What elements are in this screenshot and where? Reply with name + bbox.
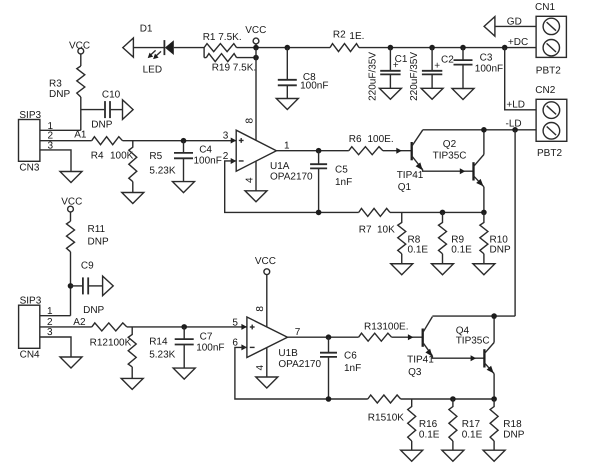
svg-text:0.1E: 0.1E <box>408 245 429 256</box>
arrow Q1 base <box>396 148 402 154</box>
svg-text:R13100E.: R13100E. <box>364 321 408 332</box>
resistor R19 7.5K <box>204 54 256 74</box>
svg-text:100nF: 100nF <box>196 343 224 354</box>
ground C2 <box>421 88 443 99</box>
svg-text:8: 8 <box>255 306 266 312</box>
svg-text:R1 7.5K.: R1 7.5K. <box>203 32 242 43</box>
ground C3 <box>452 89 474 100</box>
svg-text:0.1E: 0.1E <box>462 430 483 441</box>
svg-text:C2: C2 <box>441 55 454 66</box>
transistor Q4 TIP35C <box>456 316 494 399</box>
node junction C6 top <box>326 334 332 340</box>
wire U1A pin4 <box>255 161 257 191</box>
svg-text:R18: R18 <box>503 419 522 430</box>
svg-text:R5: R5 <box>149 151 162 162</box>
svg-text:+: + <box>434 60 440 71</box>
svg-text:4: 4 <box>255 365 266 371</box>
resistor R5 5.23K <box>129 141 176 182</box>
port arrow LED input <box>123 38 134 57</box>
node junction R9 <box>440 210 446 216</box>
resistor R10 DNP <box>480 212 511 263</box>
connector CN3 SIP3 <box>19 110 54 174</box>
VCC supply U1B <box>255 256 276 327</box>
arrow Q3 base <box>408 334 414 340</box>
wire U1B feedback <box>235 347 368 399</box>
svg-text:R17: R17 <box>462 419 481 430</box>
wire -LD drop to lower collector rail <box>514 130 516 316</box>
resistor R14 5.23K <box>128 327 175 367</box>
svg-text:D1: D1 <box>140 24 153 35</box>
ground R18 <box>483 450 505 461</box>
svg-text:R1510K: R1510K <box>368 413 404 424</box>
svg-text:TIP35C: TIP35C <box>433 151 467 162</box>
svg-text:C4: C4 <box>199 145 212 156</box>
svg-text:6: 6 <box>232 337 238 348</box>
svg-text:CN4: CN4 <box>20 350 40 361</box>
svg-text:DNP: DNP <box>91 120 112 131</box>
svg-text:1nF: 1nF <box>335 177 352 188</box>
svg-text:+: + <box>393 60 399 71</box>
svg-text:1: 1 <box>284 141 290 152</box>
svg-text:LED: LED <box>143 65 162 76</box>
svg-text:Q2: Q2 <box>443 139 457 150</box>
svg-text:R14: R14 <box>149 337 168 348</box>
op-amp U1A OPA2170 <box>223 130 313 182</box>
wire CN4 pin2 A2 <box>40 326 92 328</box>
node junction C1 <box>388 45 394 51</box>
resistor R1 7.5K <box>203 32 242 52</box>
ground R8 <box>391 264 413 275</box>
node junction +DC drop <box>502 45 508 51</box>
node junction -LD drop <box>512 127 518 133</box>
svg-text:1E.: 1E. <box>349 31 364 42</box>
wire <box>174 47 204 49</box>
resistor R18 DNP <box>490 399 525 450</box>
node junction Q4 collector <box>491 313 497 319</box>
svg-text:C9: C9 <box>81 261 94 272</box>
svg-text:R3: R3 <box>49 79 62 90</box>
wire R11 to pin1 <box>70 252 72 316</box>
svg-text:U1A: U1A <box>270 161 290 172</box>
capacitor C10 DNP <box>91 90 122 131</box>
wire U1B pin4 <box>266 348 268 377</box>
arrow Q4 base <box>471 355 477 361</box>
resistor R15 10K <box>368 395 404 424</box>
node junction C2 <box>429 45 435 51</box>
wire <box>359 47 536 49</box>
svg-text:4: 4 <box>245 177 256 183</box>
wire CN4 pin1 <box>40 315 71 317</box>
node junction R17 <box>450 396 456 402</box>
port arrow C10 <box>123 100 134 120</box>
arrow U1B pin6 <box>241 344 247 350</box>
wire U1B output <box>288 336 359 338</box>
svg-text:1nF: 1nF <box>344 363 361 374</box>
svg-text:220uF/35V: 220uF/35V <box>368 52 379 101</box>
svg-text:C6: C6 <box>344 351 357 362</box>
svg-text:10K: 10K <box>377 225 395 236</box>
ground CN3 <box>60 172 82 183</box>
resistor R9 0.1E <box>439 212 473 263</box>
capacitor C1 220uF/35V <box>368 48 408 101</box>
node junction R19 <box>253 55 259 61</box>
svg-text:100nF: 100nF <box>475 64 503 75</box>
arrow U1A pin2 <box>231 158 237 164</box>
wire R6 to Q1 base <box>383 150 412 152</box>
ground R5 <box>122 193 144 204</box>
wire +DC to +LD drop <box>505 48 536 110</box>
svg-text:A1: A1 <box>74 129 87 140</box>
resistor R8 0.1E <box>398 212 429 263</box>
svg-text:OPA2170: OPA2170 <box>278 359 321 370</box>
wire -LD collector rail <box>423 129 536 131</box>
wire Q1 collector <box>422 129 424 132</box>
wire CN3 pin3 to ground <box>40 150 71 172</box>
ground R17 <box>442 450 464 461</box>
node junction C8 <box>285 45 291 51</box>
ground C1 <box>379 88 401 99</box>
svg-text:OPA2170: OPA2170 <box>270 172 313 183</box>
ground U1A pin4 <box>245 191 267 202</box>
transistor Q2 TIP35C <box>433 130 484 213</box>
resistor R2 1E <box>330 29 364 51</box>
ground C7 <box>173 368 195 379</box>
capacitor C7 100nF <box>175 327 225 368</box>
wire lower emitter rail <box>401 398 494 400</box>
wire C10 branch <box>81 109 105 111</box>
ground CN4 <box>60 357 82 368</box>
LED D1 <box>140 24 174 76</box>
wire C9 branch <box>71 285 83 287</box>
node junction R18 <box>491 396 497 402</box>
svg-text:CN3: CN3 <box>19 163 39 174</box>
node junction Q2 collector <box>481 127 487 133</box>
wire CN4 pin3 to ground <box>40 337 71 357</box>
capacitor C9 DNP <box>81 261 105 317</box>
wire Q3 Q4 collector rail <box>432 315 515 317</box>
capacitor C2 220uF/35V <box>409 48 454 101</box>
svg-text:C3: C3 <box>480 53 493 64</box>
ground C4 <box>173 182 195 193</box>
resistor R7 10K <box>359 208 395 235</box>
svg-text:0.1E: 0.1E <box>451 245 472 256</box>
resistor R17 0.1E <box>449 399 483 450</box>
svg-text:+LD: +LD <box>506 99 525 110</box>
wire <box>237 47 330 49</box>
capacitor C6 1nF <box>320 337 361 399</box>
wire U1A feedback <box>225 161 359 212</box>
wire CN3 pin2 A1 <box>40 140 92 142</box>
node junction VCC rail <box>253 45 259 51</box>
node junction R10 <box>481 210 487 216</box>
ground C8 <box>276 99 298 110</box>
resistor R4 100K <box>91 137 134 162</box>
transistor Q1 TIP41 <box>397 130 474 193</box>
wire GD <box>495 25 536 27</box>
transistor Q3 TIP41 <box>407 317 484 378</box>
wire A2 rail <box>127 326 247 328</box>
svg-text:A2: A2 <box>73 317 86 328</box>
svg-text:GD: GD <box>507 16 522 27</box>
resistor R16 0.1E <box>408 399 440 450</box>
svg-text:PBT2: PBT2 <box>536 65 561 76</box>
wire R3 to pin1 <box>80 97 82 130</box>
wire <box>133 47 164 49</box>
resistor R13 100E <box>359 321 409 341</box>
svg-text:CN2: CN2 <box>535 85 555 96</box>
svg-text:5.23K: 5.23K <box>149 166 175 177</box>
wire R14 to ground <box>131 367 133 379</box>
svg-text:DNP: DNP <box>490 245 511 256</box>
capacitor C8 100nF <box>278 48 329 99</box>
port arrow GD <box>484 17 495 37</box>
ground U1B pin4 <box>256 377 278 388</box>
svg-text:3: 3 <box>223 131 229 142</box>
svg-text:DNP: DNP <box>83 305 104 316</box>
svg-text:R6: R6 <box>349 134 362 145</box>
svg-text:PBT2: PBT2 <box>537 148 562 159</box>
arrow U1B pin5 <box>241 324 247 330</box>
port arrow C9 <box>103 276 114 296</box>
wire U1A pin8 <box>255 48 257 141</box>
ground R16 <box>401 450 423 461</box>
svg-text:7: 7 <box>295 327 301 338</box>
svg-text:U1B: U1B <box>278 348 298 359</box>
node junction C9 <box>68 283 74 289</box>
capacitor C3 100nF <box>454 48 504 89</box>
svg-text:8: 8 <box>245 118 256 124</box>
wire emitter rail <box>390 211 484 213</box>
wire R5 to ground <box>132 182 134 193</box>
svg-text:220uF/35V: 220uF/35V <box>409 52 420 101</box>
svg-text:R7: R7 <box>359 225 372 236</box>
svg-text:CN1: CN1 <box>535 2 555 13</box>
node junction C6 bottom <box>326 396 332 402</box>
svg-text:TIP41: TIP41 <box>397 170 424 181</box>
wire parallel block left <box>203 48 205 58</box>
svg-text:DNP: DNP <box>88 237 109 248</box>
resistor R3 DNP <box>49 66 85 100</box>
connector CN1 PBT2 <box>535 2 566 76</box>
svg-text:R4: R4 <box>91 150 104 161</box>
capacitor C5 1nF <box>310 151 352 213</box>
svg-text:R2: R2 <box>333 29 346 40</box>
svg-text:100nF: 100nF <box>300 81 328 92</box>
svg-text:Q1: Q1 <box>398 182 412 193</box>
svg-text:R12100K: R12100K <box>90 338 132 349</box>
VCC supply mid <box>245 25 266 48</box>
svg-text:100nF: 100nF <box>194 156 222 167</box>
wire CN3 pin1 <box>40 129 81 131</box>
wire A1 rail <box>123 140 237 142</box>
svg-text:TIP35C: TIP35C <box>456 336 490 347</box>
svg-text:C10: C10 <box>102 90 121 101</box>
svg-text:DNP: DNP <box>503 430 524 441</box>
svg-text:3: 3 <box>47 327 53 338</box>
wire U1A output <box>276 150 348 152</box>
svg-text:2: 2 <box>223 151 229 162</box>
svg-text:5: 5 <box>232 318 238 329</box>
svg-text:100E.: 100E. <box>368 134 394 145</box>
arrow U1A pin3 <box>231 137 237 143</box>
node junction C3 <box>460 45 466 51</box>
node junction C5 bottom <box>316 210 322 216</box>
op-amp U1B OPA2170 <box>232 317 321 370</box>
ground R14 <box>121 378 143 389</box>
svg-text:VCC: VCC <box>245 25 266 36</box>
capacitor C4 100nF <box>174 141 222 182</box>
ground R10 <box>473 264 495 275</box>
svg-text:R19 7.5K.: R19 7.5K. <box>212 63 256 74</box>
svg-text:Q3: Q3 <box>408 367 422 378</box>
svg-text:0.1E: 0.1E <box>419 430 440 441</box>
node junction C4 <box>181 138 187 144</box>
node junction C7 <box>181 324 187 330</box>
resistor R11 DNP <box>67 221 109 252</box>
arrow Q2 base <box>460 168 466 174</box>
svg-text:TIP41: TIP41 <box>407 355 434 366</box>
wire R13 to Q3 base <box>392 336 423 338</box>
svg-text:C5: C5 <box>335 165 348 176</box>
resistor R12 100K <box>90 323 132 349</box>
svg-text:DNP: DNP <box>49 89 70 100</box>
svg-text:+DC: +DC <box>508 37 528 48</box>
VCC supply lower-left <box>61 197 82 222</box>
VCC supply top-left <box>69 40 90 66</box>
connector CN2 PBT2 <box>535 85 567 159</box>
svg-text:VCC: VCC <box>255 256 276 267</box>
svg-text:C7: C7 <box>200 332 213 343</box>
resistor R6 100E <box>349 134 394 155</box>
ground R9 <box>432 264 454 275</box>
svg-text:5.23K: 5.23K <box>149 350 175 361</box>
node junction C5 top <box>316 148 322 154</box>
connector CN4 SIP3 <box>19 296 53 361</box>
svg-text:R11: R11 <box>88 224 106 235</box>
svg-text:R16: R16 <box>419 419 438 430</box>
